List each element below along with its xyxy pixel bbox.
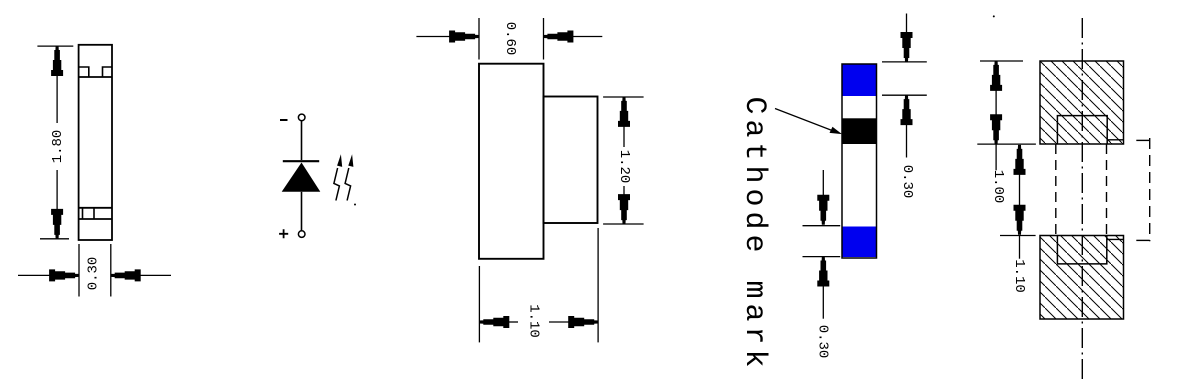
dimension 1.10 line right xyxy=(549,321,569,323)
top pad notch xyxy=(1057,116,1107,144)
bottom pad hatched xyxy=(1040,236,1124,320)
svg-text:Cathode mark: Cathode mark xyxy=(737,97,771,373)
package outline dashed right xyxy=(1149,138,1151,241)
svg-text:0.30: 0.30 xyxy=(815,325,831,359)
dimension 1.10 extension line right xyxy=(597,228,599,342)
dim 0.30 top line below xyxy=(906,125,908,158)
top electrode line xyxy=(79,76,112,78)
bottom terminal circle xyxy=(298,231,305,238)
leader arrowhead xyxy=(830,127,843,134)
dim 1.00 arrow down xyxy=(991,115,1002,144)
dim 0.30 bottom: line above xyxy=(822,170,824,196)
plus sign xyxy=(279,229,288,238)
speck top xyxy=(993,15,995,17)
package outline dashed bottom right xyxy=(1136,239,1149,241)
dim 0.30 top arrow down xyxy=(901,33,912,62)
led bar outline xyxy=(842,64,877,258)
dimension 1.20 arrow up xyxy=(619,97,630,126)
dimension 0.60 arrow left-pointing xyxy=(544,31,573,42)
dimension 0.60 arrow right-pointing xyxy=(450,31,479,42)
light bolt 2 xyxy=(345,168,351,201)
dimension 1.10 arrow right-pointing xyxy=(569,317,598,328)
svg-text:1.10: 1.10 xyxy=(526,304,542,338)
dimension 0.60 extension line right xyxy=(543,18,545,60)
dimension 0.30 arrow left-pointing xyxy=(111,270,140,281)
led bar top blue cap xyxy=(842,65,877,97)
diode triangle xyxy=(282,163,321,192)
package body front view xyxy=(479,64,544,259)
dashed electrode edge right xyxy=(1106,144,1108,236)
dim 1.10 arrow up xyxy=(1014,145,1025,174)
minus sign xyxy=(280,119,288,121)
dimension 0.60 tail left xyxy=(416,36,450,38)
dimension 1.20 line lower xyxy=(623,186,625,195)
wire bottom xyxy=(301,192,303,231)
dim 1.00 extension top xyxy=(980,60,1023,62)
dimension 0.30 extension line left xyxy=(78,244,80,297)
svg-text:0.30: 0.30 xyxy=(86,257,102,291)
dashed electrode edge left xyxy=(1055,144,1057,236)
dim 1.00 line below xyxy=(995,144,997,170)
package outline dashed top right xyxy=(1136,139,1149,141)
dimension 1.80 extension line top xyxy=(37,45,73,47)
svg-text:0.30: 0.30 xyxy=(899,165,915,199)
dimension 1.20 extension line bottom xyxy=(603,223,644,225)
dim 0.30 bottom line below xyxy=(822,286,824,319)
dim 1.10 arrow down xyxy=(1014,205,1025,234)
light bolt 2 arrowhead xyxy=(348,154,353,167)
top terminal circle xyxy=(298,114,305,121)
dim 1.00 line middle xyxy=(995,91,997,115)
bottom electrode lower line xyxy=(79,218,112,220)
svg-text:1.80: 1.80 xyxy=(50,130,66,164)
cathode bar xyxy=(283,160,319,162)
package outline solid segment top xyxy=(1107,139,1123,141)
svg-text:0.60: 0.60 xyxy=(502,22,518,56)
dimension 1.20 arrow down xyxy=(619,195,630,224)
dim 0.30 top: line above xyxy=(906,14,908,34)
top electrode left notch xyxy=(79,67,89,77)
dimension 1.10 arrow left-pointing xyxy=(480,317,509,328)
led bar black cathode mark xyxy=(842,118,877,144)
dim 1.10 extension bottom xyxy=(1000,235,1036,237)
dim 1.00 extension bottom xyxy=(977,143,1036,145)
dimension 1.80 arrow down xyxy=(52,209,63,238)
dimension 0.30 arrow right-pointing xyxy=(50,270,79,281)
dim 0.30 bottom arrow up xyxy=(818,257,829,286)
bottom electrode notch divider 1 xyxy=(82,208,84,219)
dim 1.10 line below xyxy=(1019,236,1021,259)
anode wire top xyxy=(301,121,303,160)
dimension 1.80 line lower xyxy=(56,170,58,209)
dimension 1.20 line upper xyxy=(623,126,625,147)
speck xyxy=(354,204,356,206)
dim 1.10 line middle xyxy=(1019,174,1021,205)
dim 1.00 arrow up xyxy=(991,61,1002,90)
light bolt 1 xyxy=(334,168,340,201)
top electrode right notch xyxy=(103,67,113,77)
dimension 1.10 extension line left xyxy=(478,266,480,342)
light bolt 1 arrowhead xyxy=(337,154,342,167)
lens rectangle xyxy=(544,97,598,224)
dimension 1.20 extension line top xyxy=(603,96,644,98)
svg-text:1.10: 1.10 xyxy=(1011,259,1027,293)
package outline solid segment bottom xyxy=(1107,238,1124,240)
center line xyxy=(1081,18,1083,381)
dim 0.30 top arrow up xyxy=(901,96,912,125)
dim 0.30 bottom extension line 2 xyxy=(803,256,841,258)
dim 0.30 top extension line 2 xyxy=(882,94,927,96)
svg-text:1.00: 1.00 xyxy=(990,170,1006,204)
dimension 0.60 tail right xyxy=(572,36,602,38)
dimension 1.80 extension line bottom xyxy=(40,238,69,240)
led bar bottom blue cap xyxy=(842,227,877,258)
dimension 1.10 line left xyxy=(509,321,518,323)
bottom electrode upper line xyxy=(79,207,112,209)
dimension 0.30 extension line right xyxy=(110,244,112,297)
dimension 1.80 line upper xyxy=(56,76,58,123)
top pad hatched xyxy=(1040,61,1124,144)
dimension 0.60 extension line left xyxy=(478,18,480,60)
package side view outline xyxy=(79,45,112,240)
bottom pad notch xyxy=(1057,236,1106,264)
dim 0.30 bottom extension line 1 xyxy=(803,225,841,227)
dimension 0.30 tail left xyxy=(18,274,50,276)
svg-text:1.20: 1.20 xyxy=(616,150,632,184)
leader line xyxy=(775,109,836,133)
dim 0.30 bottom arrow down xyxy=(818,195,829,224)
bottom electrode notch divider 2 xyxy=(93,208,95,219)
dimension 1.80 arrow up xyxy=(52,47,63,76)
dimension 0.30 tail right xyxy=(140,274,171,276)
dim 0.30 top extension line 1 xyxy=(882,61,927,63)
